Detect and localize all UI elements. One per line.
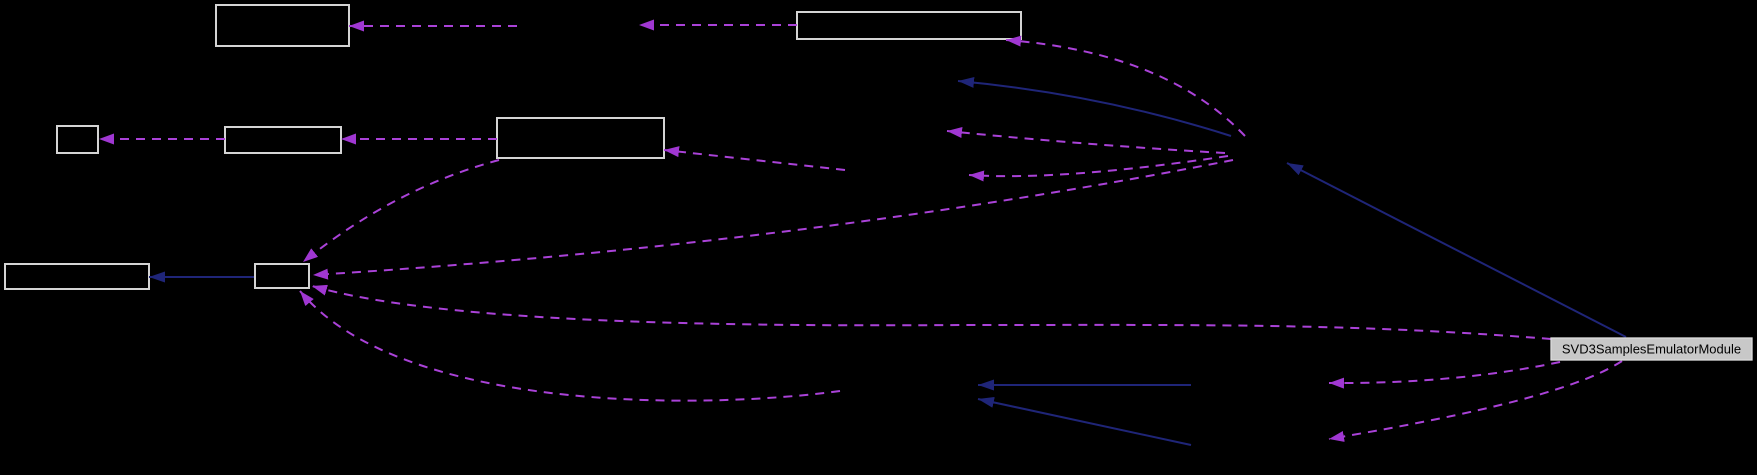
node B3 (row2 small left box) xyxy=(57,126,98,153)
edge E4: B4 to B3 xyxy=(99,138,225,140)
node B2 (top-middle box) xyxy=(797,12,1021,39)
edge S5: hidden node Nb to hidden node Nc xyxy=(978,399,1191,445)
edge E1: hidden node N1 to B1 xyxy=(349,25,517,27)
edge E2: B2 to hidden node N1 xyxy=(639,24,797,26)
edge E5: B5 to B4 xyxy=(341,138,497,140)
edge E6: hidden node N5 to B5 xyxy=(664,150,845,170)
node B8: SVD3SamplesEmulatorModule (highlighted node) xyxy=(1551,338,1752,360)
node B5 (row2 large box) xyxy=(497,118,664,158)
edge E8: center node N2 to hidden node N5 xyxy=(969,156,1228,176)
edge S3: SVD3SamplesEmulatorModule to center node N2 xyxy=(1287,163,1626,337)
edge S4: hidden node Na to hidden node Nc xyxy=(978,384,1191,386)
node B1 (top-left box) xyxy=(216,5,349,46)
node B4 (row2 middle box) xyxy=(225,127,341,153)
solid inheritance edges (dark blue) xyxy=(149,81,1626,445)
edge E11: B5 to B7 xyxy=(303,160,499,262)
edge S2: center node N2 to hidden node N3 xyxy=(958,81,1231,136)
node B7 (row3 small box) xyxy=(255,264,309,288)
svg-text:SVD3SamplesEmulatorModule: SVD3SamplesEmulatorModule xyxy=(1562,342,1741,357)
edge E3: hidden center node N2 to B2 xyxy=(1006,40,1245,136)
edge E13: SVD3SamplesEmulatorModule to hidden node Na xyxy=(1329,362,1560,383)
node B6 (row3 left wide box) xyxy=(5,264,149,289)
edge S1: B7 to B6 xyxy=(149,276,254,278)
edge E12: hidden node Nc to B7 (bottom sweep) xyxy=(300,291,840,401)
edge E7: center node N2 to hidden node N4 xyxy=(947,131,1225,153)
edge E9: center node N2 to B7 (long upper curve) xyxy=(313,160,1233,275)
edge E14: SVD3SamplesEmulatorModule to hidden node Nb xyxy=(1329,361,1622,439)
edge E10: SVD3SamplesEmulatorModule to B7 (long lower curve) xyxy=(312,286,1551,339)
dashed usage edges (purple) xyxy=(99,25,1622,439)
